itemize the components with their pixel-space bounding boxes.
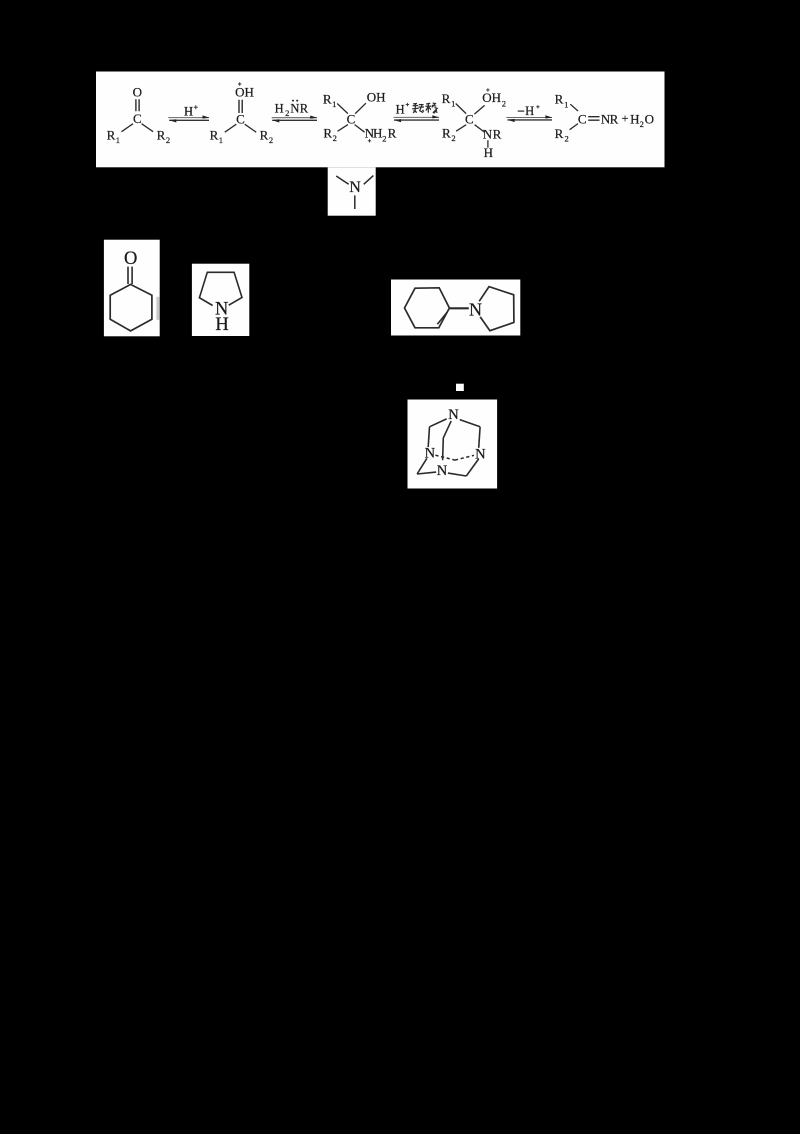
bond R2-C — [338, 125, 348, 132]
svg-text:H: H — [630, 112, 639, 127]
svg-text:R: R — [323, 92, 332, 107]
bond R1-C — [337, 104, 348, 114]
bond OH2-C — [474, 105, 484, 114]
svg-text:R: R — [555, 92, 564, 107]
svg-text:C: C — [347, 112, 356, 127]
bond C-N — [355, 125, 365, 133]
stray white square mark — [456, 384, 464, 391]
svg-text:2: 2 — [285, 108, 289, 118]
svg-text:N: N — [437, 463, 448, 479]
svg-text:C: C — [465, 112, 474, 127]
SECTION B: trimethylamine white panel — [328, 167, 376, 215]
equilibrium arrow 4 — [506, 115, 552, 122]
pyrrolidinyl ring (open at N) — [479, 287, 514, 331]
svg-text:R: R — [260, 128, 269, 143]
svg-text:H: H — [484, 145, 493, 160]
cyclohexene ring — [405, 288, 450, 328]
svg-text:C: C — [578, 112, 587, 127]
panel C background — [104, 240, 160, 337]
svg-text:2: 2 — [166, 135, 170, 145]
panel B background — [328, 167, 376, 215]
Chinese char zhuan — [412, 103, 424, 113]
SECTION A: reaction scheme white panel — [96, 72, 665, 168]
svg-text:1: 1 — [451, 99, 455, 109]
bond ring-N — [450, 307, 469, 309]
bond bottom-left CH2 to bottomN — [417, 472, 436, 474]
svg-text:2: 2 — [502, 99, 506, 109]
scan artifact gray bar — [156, 297, 159, 320]
bond right CH2 to rightN — [479, 427, 480, 448]
svg-text:H: H — [184, 104, 193, 118]
panel D background — [192, 264, 249, 336]
equilibrium arrow 2 — [272, 116, 318, 123]
bond front CH2 down to bottomN — [442, 438, 445, 460]
svg-text:H: H — [396, 102, 405, 116]
SECTION F: urotropine white panel — [408, 384, 498, 489]
panel A background — [96, 72, 665, 168]
svg-text:2: 2 — [269, 135, 273, 145]
SECTION E: enamine white panel — [391, 280, 520, 336]
bond topN to left CH2 — [430, 419, 447, 427]
svg-text:R: R — [323, 126, 332, 141]
SECTION D: pyrrolidine white panel — [192, 264, 249, 336]
svg-text:O: O — [133, 84, 142, 99]
svg-text:OH: OH — [482, 90, 501, 105]
svg-text:H: H — [215, 315, 228, 335]
svg-text:R: R — [442, 126, 451, 141]
equilibrium arrow 1 — [168, 115, 209, 122]
svg-text:R: R — [442, 91, 451, 106]
svg-text:R: R — [107, 128, 116, 143]
arrow 4 label -H+ — [518, 110, 525, 112]
bond N-H vertical — [487, 140, 489, 148]
svg-text:C: C — [236, 112, 245, 127]
protonated ketone structure 2: plus mark above O — [238, 82, 241, 85]
dashed bond leftN to back CH2 — [435, 455, 455, 460]
bond OH-C — [355, 103, 366, 113]
SECTION C: cyclohexanone white panel — [104, 240, 160, 337]
svg-text:2: 2 — [564, 134, 568, 144]
bond R2-C — [570, 124, 578, 130]
bond C-R2 — [245, 124, 257, 132]
svg-text:N: N — [290, 102, 299, 116]
bond topN to right CH2 — [460, 420, 480, 427]
svg-text:O: O — [124, 249, 137, 269]
cyclohexane ring — [110, 284, 152, 331]
svg-text:1: 1 — [219, 135, 223, 145]
svg-text:H: H — [373, 126, 382, 141]
svg-text:N: N — [483, 127, 493, 142]
svg-text:H: H — [275, 102, 284, 116]
svg-text:2: 2 — [451, 133, 455, 143]
svg-text:O: O — [645, 111, 654, 126]
C=N double bond — [588, 117, 599, 121]
svg-text:H: H — [525, 104, 534, 118]
plus above O — [486, 88, 489, 91]
bond rightN to bottom-right CH2 — [466, 459, 478, 476]
svg-text:1: 1 — [564, 99, 568, 109]
bond C-R1 — [122, 124, 134, 132]
svg-text:R: R — [300, 102, 309, 116]
C=O double bond — [128, 267, 132, 284]
svg-text:N: N — [469, 300, 482, 320]
panel F background — [408, 400, 498, 489]
C=O double bond — [239, 100, 242, 113]
bond R2-C — [456, 125, 466, 132]
svg-text:2: 2 — [382, 133, 386, 143]
bond R1-C — [570, 104, 578, 111]
panel E background — [391, 280, 520, 336]
pyrrolidine ring (open at N) — [199, 272, 242, 305]
svg-text:2: 2 — [333, 133, 337, 143]
bond bottom-right CH2 to bottomN — [448, 473, 466, 476]
svg-text:R: R — [610, 112, 619, 127]
svg-text:R: R — [388, 126, 397, 141]
bond C-R2 — [142, 124, 154, 132]
svg-text:R: R — [157, 128, 166, 143]
bond R1-C — [456, 104, 466, 114]
bond methyl upper-right — [364, 176, 374, 185]
svg-text:N: N — [349, 179, 361, 196]
Chinese char yi — [425, 103, 437, 113]
svg-text:R: R — [555, 126, 564, 141]
svg-text:R: R — [493, 127, 502, 142]
equilibrium arrow 3 — [393, 115, 439, 122]
svg-text:R: R — [210, 128, 219, 143]
ketone C=O double bond — [136, 99, 139, 111]
bond methyl down — [354, 195, 356, 209]
bond C-N — [475, 125, 485, 132]
svg-text:+: + — [622, 111, 629, 125]
svg-text:1: 1 — [332, 99, 336, 109]
svg-text:2: 2 — [640, 119, 644, 129]
bond topN to front CH2 — [443, 421, 451, 438]
svg-text:OH: OH — [367, 90, 386, 105]
bond left CH2 to leftN — [428, 427, 429, 447]
svg-text:OH: OH — [235, 84, 254, 99]
bond C-R1 — [225, 124, 237, 132]
svg-text:N: N — [448, 407, 459, 423]
dashed bond back CH2 to rightN — [455, 455, 474, 460]
svg-text:C: C — [133, 111, 142, 126]
bond methyl upper-left — [336, 176, 349, 184]
cyclohexene inner double bond — [437, 312, 447, 324]
svg-text:1: 1 — [116, 135, 120, 145]
bond leftN to bottom-left CH2 — [417, 458, 427, 474]
